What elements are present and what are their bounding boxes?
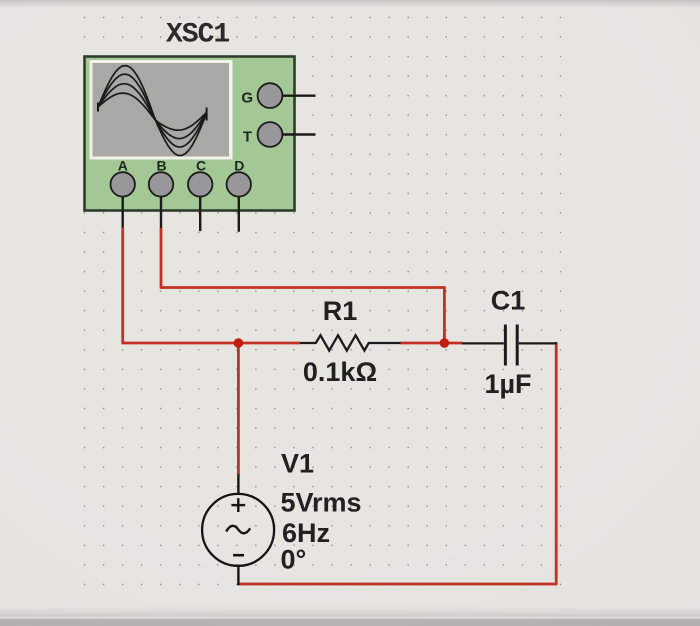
value 6Hz bbox=[282, 518, 330, 548]
label R1 bbox=[323, 296, 358, 326]
AC source V1 bbox=[202, 475, 274, 586]
svg-text:C1: C1 bbox=[491, 286, 526, 316]
value 0.1kΩ bbox=[303, 357, 377, 387]
node junction V1 top bbox=[234, 338, 244, 348]
wire channel B vertical bbox=[160, 228, 163, 288]
wire B drop to node bbox=[443, 286, 446, 343]
svg-text:6Hz: 6Hz bbox=[282, 518, 330, 548]
svg-text:5Vrms: 5Vrms bbox=[281, 488, 362, 518]
value 1μF bbox=[484, 369, 531, 399]
svg-text:T: T bbox=[243, 129, 252, 146]
wire V1 top vertical bbox=[237, 343, 240, 475]
wire B horizontal bbox=[160, 286, 445, 289]
svg-text:0.1kΩ: 0.1kΩ bbox=[303, 357, 377, 387]
terminal B bbox=[149, 158, 173, 229]
svg-text:0°: 0° bbox=[281, 545, 307, 575]
svg-text:G: G bbox=[241, 90, 253, 107]
value 5Vrms bbox=[281, 488, 362, 518]
oscilloscope XSC1 body bbox=[85, 57, 295, 211]
instrument label XSC1 bbox=[166, 20, 229, 51]
label V1 bbox=[281, 448, 314, 478]
wire C1 right side down bbox=[555, 342, 558, 584]
wire channel A vertical bbox=[121, 228, 124, 344]
svg-text:R1: R1 bbox=[323, 296, 358, 326]
svg-text:C: C bbox=[196, 158, 206, 174]
svg-text:D: D bbox=[234, 158, 244, 174]
svg-text:XSC1: XSC1 bbox=[166, 20, 229, 51]
terminal T bbox=[243, 122, 316, 147]
svg-text:B: B bbox=[156, 158, 166, 174]
wire bottom return bbox=[237, 583, 557, 586]
terminal A bbox=[111, 158, 135, 229]
svg-text:V1: V1 bbox=[281, 448, 314, 478]
resistor R1 bbox=[300, 335, 401, 350]
oscilloscope screen bbox=[90, 60, 233, 160]
node junction R1 C1 bbox=[440, 338, 450, 348]
svg-text:A: A bbox=[118, 158, 128, 174]
svg-text:1µF: 1µF bbox=[484, 369, 531, 399]
terminal D bbox=[227, 158, 251, 232]
wire R1 to node bbox=[400, 342, 463, 345]
label C1 bbox=[491, 286, 526, 316]
wire A corner to R1 bbox=[122, 342, 301, 345]
waveform traces bbox=[98, 66, 207, 156]
terminal G bbox=[241, 83, 315, 108]
value 0° bbox=[281, 545, 307, 575]
capacitor C1 bbox=[462, 325, 557, 366]
terminal C bbox=[188, 158, 212, 232]
